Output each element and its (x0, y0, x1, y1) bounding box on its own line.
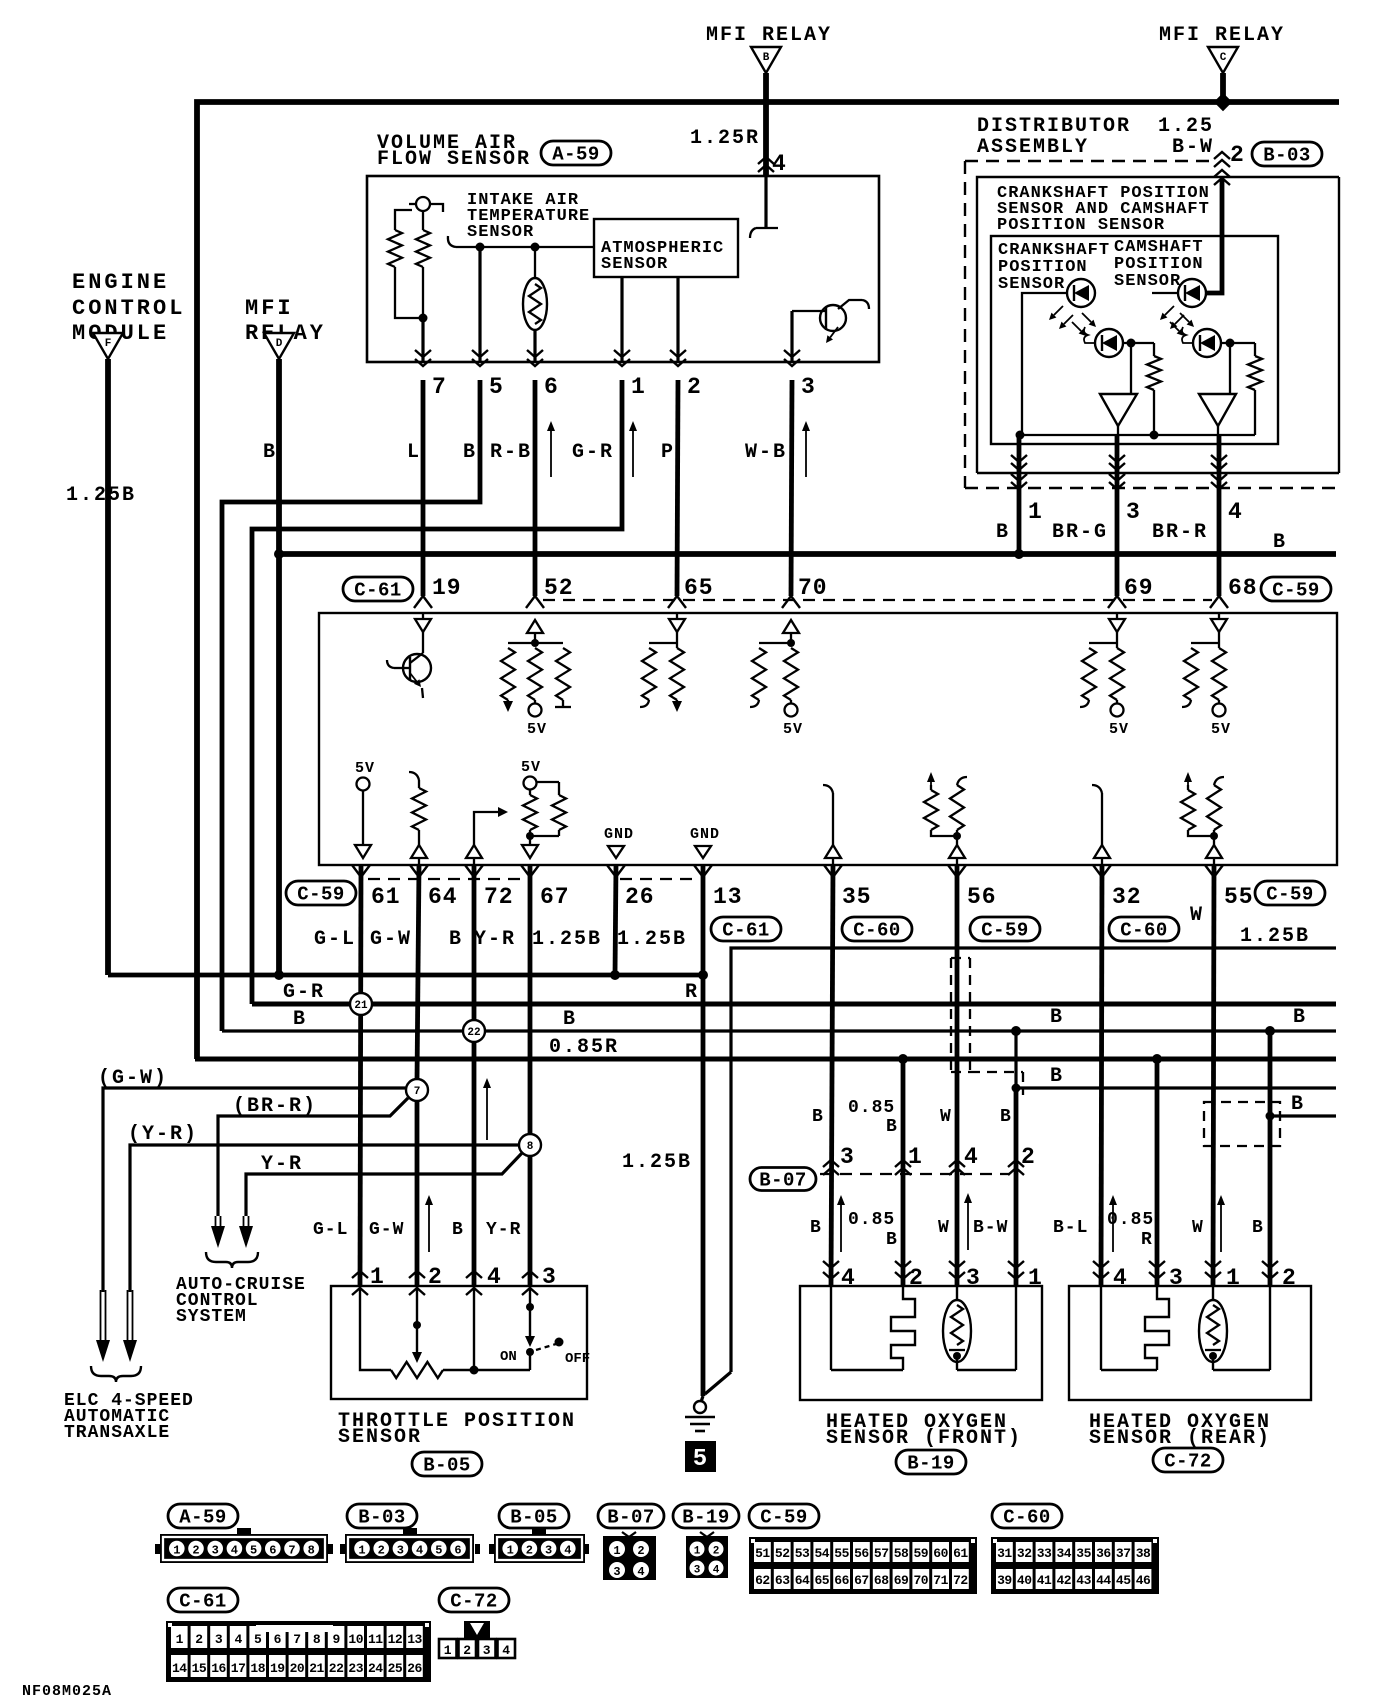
svg-text:52: 52 (775, 1546, 790, 1561)
junction node pin 26 wire / ground bus (610, 970, 620, 980)
atmospheric sensor output wire to pin 2 (676, 277, 679, 362)
svg-text:G-L: G-L (314, 928, 356, 951)
chevrons distributor wires crossing sensor box bottom (1011, 455, 1027, 462)
crank photo incoming light arrows (1082, 313, 1091, 322)
svg-text:2: 2 (1230, 142, 1245, 168)
svg-text:1: 1 (507, 1544, 514, 1558)
connector triangle B (MFI relay) (751, 47, 781, 73)
connector label B-05 (412, 1452, 482, 1476)
transistor Q (vane signal) inside VAFS (820, 305, 846, 331)
connector label B-03 (top) (1252, 142, 1322, 166)
svg-text:56: 56 (854, 1546, 869, 1561)
svg-text:2: 2 (687, 374, 702, 400)
bus wire B (from VAFS pin 5) (222, 1029, 1336, 1032)
ground bus 1.25B from ECM F wire (108, 973, 703, 978)
wire transistor base lead to VAFS pin 3 (790, 311, 793, 362)
wire BR-R distributor pin 4 to ECM pin 68 (1217, 435, 1222, 596)
flow arrows rear O2 wires (1112, 1202, 1114, 1252)
svg-text:C-72: C-72 (1164, 1451, 1212, 1473)
svg-text:SENSOR (REAR): SENSOR (REAR) (1089, 1427, 1271, 1450)
throttle position sensor box (331, 1286, 587, 1399)
wire ECM pin 13 1.25B down to ground point 5 (701, 865, 706, 1396)
svg-text:39: 39 (997, 1573, 1012, 1588)
svg-text:64: 64 (428, 884, 458, 910)
ground reference 5 black box (685, 1441, 716, 1472)
wire (BR-R) from splice 7 to auto-cruise (218, 1098, 408, 1216)
svg-text:1: 1 (1028, 499, 1043, 525)
svg-text:F: F (105, 338, 112, 350)
svg-text:C: C (1220, 52, 1227, 64)
svg-text:8: 8 (527, 1141, 534, 1153)
svg-text:3: 3 (545, 1544, 552, 1558)
O2 element wire rear (1100, 1286, 1102, 1370)
svg-text:2: 2 (713, 1546, 720, 1558)
svg-text:4: 4 (234, 1632, 242, 1647)
ECM jog wire with arrow at pin 72 (474, 812, 498, 845)
svg-text:MFI: MFI (245, 296, 294, 321)
svg-text:Y-R: Y-R (486, 1220, 521, 1240)
svg-text:1: 1 (631, 374, 646, 400)
dashed shield box around rear O2 W and B wires (1204, 1102, 1280, 1146)
ECM input triangle pin 68 (1211, 619, 1227, 632)
VAFS potentiometer wiper terminal circle (416, 197, 430, 211)
wire ECM pin 55 W down to rear oxygen sensor pin 1 (1213, 865, 1214, 1286)
ECM resistor network at pin 52 (508, 642, 563, 644)
svg-text:B-03: B-03 (358, 1507, 406, 1529)
svg-text:B: B (1252, 1218, 1264, 1238)
pin stubs bottom row (352, 865, 361, 877)
wire Y-R from splice 8 to auto-cruise (246, 1153, 522, 1216)
wire W-B from VAFS pin 3 to C-59 pin 70 (791, 380, 792, 596)
1.25B wire right section (731, 948, 1336, 1372)
resistor above pin 64 (409, 772, 419, 780)
junction node at MFI relay C and top bus (1214, 93, 1232, 111)
O2 heater element rear (1212, 1286, 1214, 1301)
svg-text:1.25B: 1.25B (66, 484, 136, 507)
wire 0.85R branch down to B-07 pin 1 (901, 1059, 906, 1286)
junction node B bus to front O2 pin 1 wire (1011, 1026, 1021, 1036)
svg-text:4: 4 (713, 1565, 720, 1577)
junction node IAT lead / pin 5 wire (476, 243, 485, 252)
switch lever dashed to OFF (536, 1344, 556, 1350)
svg-text:G-L: G-L (313, 1220, 348, 1240)
svg-text:44: 44 (1096, 1573, 1111, 1588)
wire from MFI relay C down to top bus (1220, 73, 1226, 104)
svg-text:(BR-R): (BR-R) (233, 1095, 317, 1118)
connector label B-03 (bottom table) (347, 1504, 417, 1528)
connector label B-05 (bottom table) (499, 1504, 569, 1528)
svg-text:C-59: C-59 (981, 920, 1029, 942)
ECM input triangle pin 65 (669, 619, 685, 632)
svg-text:13: 13 (713, 884, 743, 910)
resistor crank sensor load (1153, 343, 1155, 356)
svg-text:23: 23 (348, 1661, 363, 1676)
svg-text:4: 4 (964, 1144, 979, 1170)
top power bus 0.85R (197, 102, 1339, 1059)
svg-text:0.85R: 0.85R (549, 1036, 619, 1059)
ECM triangle pin 72 (466, 845, 482, 858)
svg-text:36: 36 (1096, 1546, 1111, 1561)
ECM triangle pin 56 (949, 845, 965, 858)
junction node IAT lead / thermistor (531, 243, 540, 252)
svg-text:B: B (996, 521, 1010, 544)
svg-text:B: B (886, 1230, 898, 1250)
svg-text:2: 2 (195, 1632, 203, 1647)
wire ECM pin 67 Y-R down to splice 8 (528, 865, 533, 1135)
sensor internal common rail (1020, 434, 1255, 436)
wire L from VAFS pin 7 to C-61 pin 19 (421, 380, 426, 596)
svg-text:22: 22 (467, 1027, 480, 1039)
svg-text:B: B (812, 1107, 824, 1127)
svg-text:3: 3 (694, 1565, 701, 1577)
connector label C-59 under pin 56 (970, 917, 1040, 941)
connector label C-60 (bottom table) (992, 1504, 1062, 1528)
svg-text:OFF: OFF (565, 1351, 590, 1367)
svg-text:1: 1 (694, 1546, 701, 1558)
connector label C-61 under pin 13 (711, 917, 781, 941)
svg-text:3: 3 (801, 374, 816, 400)
svg-text:38: 38 (1136, 1546, 1151, 1561)
TPS idle switch from pin 3 (529, 1286, 531, 1338)
ECM input triangle pin 52 (527, 620, 543, 633)
svg-text:4: 4 (502, 1643, 510, 1658)
ECM triangle pin 64 (411, 845, 427, 858)
pin stubs top row 19 52 65 70 69 68 (414, 596, 423, 608)
connector pinout A-59 8-pin (160, 1534, 328, 1563)
connector label C-72 (1153, 1448, 1223, 1472)
svg-text:5: 5 (489, 374, 504, 400)
svg-text:7: 7 (288, 1544, 295, 1558)
svg-text:4: 4 (231, 1544, 238, 1558)
junction node B bus to rear O2 pin 2 wire (1265, 1026, 1275, 1036)
wire B-W from B-03 pin 2 down into sensor box (1206, 179, 1222, 293)
wire (G-W) from splice 7 to auto-cruise (103, 1088, 417, 1292)
wire BR-G distributor pin 3 to ECM pin 69 (1115, 435, 1120, 596)
svg-text:B: B (810, 1218, 822, 1238)
5V supply circle pin 52 network (534, 700, 536, 704)
svg-text:65: 65 (684, 575, 714, 601)
svg-text:BR-G: BR-G (1052, 521, 1108, 544)
svg-text:56: 56 (967, 884, 997, 910)
svg-text:58: 58 (894, 1546, 909, 1561)
ECM output triangle pin 61 (355, 845, 371, 858)
svg-text:B: B (449, 928, 463, 951)
svg-text:ON: ON (500, 1349, 517, 1365)
svg-text:B-05: B-05 (423, 1455, 471, 1477)
IAT sensor lead wire with curl (456, 246, 594, 248)
svg-text:B-05: B-05 (510, 1507, 558, 1529)
VAFS potentiometer left resistor (395, 210, 412, 230)
svg-text:C-61: C-61 (354, 580, 402, 602)
dashed connector line B-07 (820, 1173, 1010, 1175)
O2 element wire front (830, 1286, 832, 1370)
ECM stub wire above pin 35 (823, 785, 833, 793)
LED camshaft position sensor (1178, 279, 1206, 307)
VAFS potentiometer right resistor (422, 211, 424, 230)
svg-text:GND: GND (690, 826, 720, 843)
svg-text:4: 4 (772, 151, 787, 177)
TPS wiper wire from pin 2 (416, 1286, 418, 1352)
svg-text:B-W: B-W (1172, 136, 1214, 159)
wire ECM pin 56 W down to B-07 pin 4 (955, 865, 960, 1286)
wire B from MFI relay D down across buses (276, 359, 282, 975)
wire B from VAFS pin 5 turning left and down (222, 380, 480, 1031)
junction node pin 13 wire / ground bus (698, 970, 708, 980)
inner sensor box (991, 236, 1278, 444)
svg-text:C-59: C-59 (1266, 884, 1314, 906)
heated oxygen sensor box rear (1069, 1286, 1311, 1400)
chevrons distributor wires crossing dashed box bottom (1011, 474, 1027, 481)
VAFS bottom edge pin chevrons pins 7 5 6 1 2 3 (415, 350, 431, 357)
ECM input triangle pin 19 (422, 613, 424, 620)
svg-text:R: R (685, 981, 699, 1004)
svg-text:1: 1 (173, 1544, 180, 1558)
svg-text:68: 68 (1228, 575, 1258, 601)
svg-text:15: 15 (192, 1661, 207, 1676)
svg-text:5: 5 (250, 1544, 257, 1558)
crankshaft and camshaft position sensor box (977, 177, 1339, 473)
svg-text:42: 42 (1056, 1573, 1071, 1588)
connector label B-07 (bottom table) (598, 1504, 664, 1528)
B branch wire to front O2 pin 1 (1016, 1031, 1336, 1088)
connector pinout C-61 grid (166, 1621, 431, 1682)
phototransistor crankshaft sensor (1095, 329, 1123, 357)
TPS pin 1 wire inside to potentiometer (360, 1286, 391, 1370)
wire crank photo to amplifier (1130, 343, 1132, 394)
splice 22 on B bus at pin 72 wire (463, 1020, 485, 1042)
svg-text:22: 22 (329, 1661, 344, 1676)
svg-text:1.25B: 1.25B (617, 928, 687, 951)
svg-text:25: 25 (388, 1661, 403, 1676)
svg-text:A-59: A-59 (179, 1507, 227, 1529)
svg-text:SENSOR: SENSOR (601, 255, 668, 274)
svg-text:G-R: G-R (283, 981, 325, 1004)
bus wire 0.85R (from top bus corner) (195, 1057, 1336, 1062)
svg-text:TRANSAXLE: TRANSAXLE (64, 1423, 170, 1443)
svg-text:21: 21 (309, 1661, 324, 1676)
junction node D wire / B bus (274, 549, 284, 559)
connector label B-19 (bottom table) (673, 1504, 739, 1528)
svg-text:2: 2 (378, 1544, 385, 1558)
svg-text:69: 69 (1124, 575, 1154, 601)
dashed connector line C-59 bottom row pins 61-67 (368, 878, 530, 880)
svg-text:B-03: B-03 (1263, 145, 1311, 167)
svg-text:64: 64 (795, 1573, 810, 1588)
wire ECM pin 72 B down to TPS pin 4 (472, 865, 477, 1286)
ECM triangle pin 32 (1094, 845, 1110, 858)
svg-text:34: 34 (1056, 1546, 1071, 1561)
connector label C-59 (bottom row right) (1255, 881, 1325, 905)
svg-text:61: 61 (371, 884, 401, 910)
ECM resistor pair at pin 65 (649, 642, 677, 644)
svg-text:46: 46 (1136, 1573, 1151, 1588)
flow arrow beside G-R wire (632, 428, 634, 477)
svg-text:1.25: 1.25 (1158, 115, 1214, 138)
svg-text:19: 19 (270, 1661, 285, 1676)
wire splice 8 down to TPS pin 3 (528, 1155, 533, 1286)
svg-text:B: B (1291, 1093, 1305, 1116)
svg-text:3: 3 (840, 1144, 855, 1170)
junction node 0.85R to B-07 pin 1 wire (898, 1054, 908, 1064)
connector label A-59 (top) (541, 141, 611, 165)
transistor inside ECM at pin 19 (422, 632, 424, 653)
svg-text:33: 33 (1037, 1546, 1052, 1561)
connector pinout C-72 (464, 1621, 490, 1641)
bus wire G-R / R (from VAFS pin 1) (252, 1002, 1336, 1007)
svg-text:Y-R: Y-R (261, 1153, 303, 1176)
svg-text:65: 65 (814, 1573, 829, 1588)
svg-text:1: 1 (908, 1144, 923, 1170)
svg-text:3: 3 (1126, 499, 1141, 525)
main B bus wire (MFI relay D to right margin) (279, 551, 1336, 557)
svg-text:L: L (407, 441, 421, 464)
connector label C-61 (ECM top row) (343, 577, 413, 601)
C-61 top slot (256, 1625, 333, 1632)
wire B distributor pin 1 down to B bus (1017, 435, 1022, 554)
svg-text:43: 43 (1076, 1573, 1091, 1588)
svg-text:FLOW SENSOR: FLOW SENSOR (377, 148, 531, 171)
svg-text:B: B (1293, 1006, 1307, 1029)
ECM triangle pin 67 (522, 845, 538, 858)
volume air flow sensor box (367, 176, 879, 362)
svg-text:C-60: C-60 (1003, 1507, 1051, 1529)
hollow arrow to ELC transaxle (Y-R) (127, 1290, 129, 1342)
svg-text:0.85: 0.85 (1107, 1210, 1154, 1230)
svg-text:6: 6 (544, 374, 559, 400)
svg-text:70: 70 (913, 1573, 928, 1588)
svg-text:W: W (1192, 1218, 1204, 1238)
svg-text:6: 6 (274, 1632, 282, 1647)
svg-text:1: 1 (444, 1643, 452, 1658)
brace auto-cruise (206, 1252, 258, 1268)
svg-text:20: 20 (290, 1661, 305, 1676)
ECM resistor pair at pin 70 (759, 642, 791, 644)
svg-text:11: 11 (368, 1632, 383, 1647)
svg-text:52: 52 (544, 575, 574, 601)
svg-text:B: B (763, 52, 770, 64)
svg-text:4: 4 (564, 1544, 571, 1558)
svg-text:6: 6 (269, 1544, 276, 1558)
wire 0.85R branch down to rear O2 pin 3 (1155, 1059, 1160, 1286)
TPS pin chevrons (352, 1271, 368, 1278)
connector label C-61 (bottom table) (168, 1588, 238, 1612)
ECM resistor pair at pin 69 (1089, 642, 1117, 644)
svg-text:W-B: W-B (745, 441, 787, 464)
svg-text:21: 21 (354, 1000, 368, 1012)
hollow arrow to auto-cruise control (BR-R) (215, 1216, 217, 1228)
svg-text:B-19: B-19 (682, 1507, 730, 1529)
svg-text:1: 1 (358, 1544, 365, 1558)
TPS pin 4 wire to common rail (473, 1286, 475, 1370)
svg-text:63: 63 (775, 1573, 790, 1588)
svg-text:2: 2 (526, 1544, 533, 1558)
svg-text:40: 40 (1017, 1573, 1032, 1588)
svg-text:P: P (661, 441, 675, 464)
svg-text:8: 8 (308, 1544, 315, 1558)
brace ELC transaxle (91, 1366, 141, 1382)
svg-text:SENSOR: SENSOR (467, 223, 534, 242)
wire P from VAFS pin 2 to C-59 pin 65 (677, 380, 678, 596)
svg-text:4: 4 (416, 1544, 423, 1558)
thermistor (intake air temperature sensing element) (534, 247, 536, 280)
connector label B-19 (896, 1450, 966, 1474)
svg-text:C-59: C-59 (760, 1507, 808, 1529)
junction node distributor pin1 / B bus (1014, 549, 1024, 559)
svg-text:5V: 5V (521, 759, 541, 776)
flow arrow beside W-B wire (805, 428, 807, 477)
ECM triangle pin 35 (825, 845, 841, 858)
svg-text:R: R (1141, 1230, 1153, 1250)
svg-text:W: W (1190, 904, 1204, 927)
connector chevrons VAFS pin 4 (758, 157, 774, 164)
svg-text:26: 26 (625, 884, 655, 910)
5V supply circle pin 68 network (1218, 700, 1220, 704)
resistor pair above pin 55 (1187, 779, 1189, 790)
ECM input triangle pin 69 (1109, 619, 1125, 632)
svg-text:19: 19 (432, 575, 462, 601)
svg-text:2: 2 (637, 1544, 644, 1558)
svg-text:59: 59 (913, 1546, 928, 1561)
ECM resistor pair at pin 68 (1191, 642, 1219, 644)
svg-text:17: 17 (231, 1661, 246, 1676)
svg-text:B: B (886, 1117, 898, 1137)
svg-text:B: B (293, 1008, 307, 1031)
5V supply circle pin 69 network (1116, 700, 1118, 704)
svg-text:B-07: B-07 (607, 1507, 655, 1529)
svg-text:6: 6 (454, 1544, 461, 1558)
svg-text:72: 72 (484, 884, 514, 910)
svg-text:7: 7 (293, 1632, 300, 1647)
wire G-R from VAFS pin 1 turning left and down (252, 380, 622, 1004)
svg-text:35: 35 (1076, 1546, 1091, 1561)
connector triangle C (MFI relay) (1208, 47, 1238, 73)
svg-text:7: 7 (414, 1086, 421, 1098)
connector pinout B-07 2x2 (603, 1536, 656, 1580)
svg-text:66: 66 (834, 1573, 849, 1588)
amplifier triangle camshaft (1199, 394, 1236, 426)
svg-text:8: 8 (313, 1632, 321, 1647)
svg-text:67: 67 (540, 884, 570, 910)
svg-text:B: B (463, 441, 477, 464)
wire crank LED cathode to output rail (1022, 293, 1067, 435)
svg-text:SENSOR: SENSOR (998, 275, 1065, 294)
wire 1.25B from ECM F down to ground bus (105, 359, 111, 975)
wire cam photo to amplifier (1229, 343, 1231, 394)
connector label C-60 under pin 32 (1109, 917, 1179, 941)
svg-text:B: B (563, 1008, 577, 1031)
svg-text:13: 13 (407, 1632, 422, 1647)
svg-text:DISTRIBUTOR: DISTRIBUTOR (977, 115, 1131, 138)
svg-text:24: 24 (368, 1661, 383, 1676)
svg-text:C-72: C-72 (450, 1591, 498, 1613)
dashed connector line C-59 top row (543, 599, 1212, 601)
connector triangle F (engine control module) (93, 333, 123, 359)
dashed shield box around pin 56 wire (950, 958, 952, 1072)
dashed shield extension to B branch (970, 1071, 1023, 1073)
svg-text:31: 31 (997, 1546, 1012, 1561)
LED crankshaft position sensor (1067, 279, 1095, 307)
svg-text:B-19: B-19 (907, 1453, 955, 1475)
wire from MFI relay B down to volume air flow sensor pin 4 (763, 73, 769, 176)
splice 8 (519, 1134, 541, 1156)
svg-text:BR-R: BR-R (1152, 521, 1208, 544)
svg-text:2: 2 (463, 1643, 471, 1658)
cam photo output lead (1221, 342, 1255, 344)
svg-text:1.25B: 1.25B (622, 1151, 692, 1174)
svg-text:1: 1 (176, 1632, 184, 1647)
O2 sensing element zigzag rear (1145, 1286, 1169, 1370)
ECM stub wire above pin 32 (1092, 785, 1102, 793)
